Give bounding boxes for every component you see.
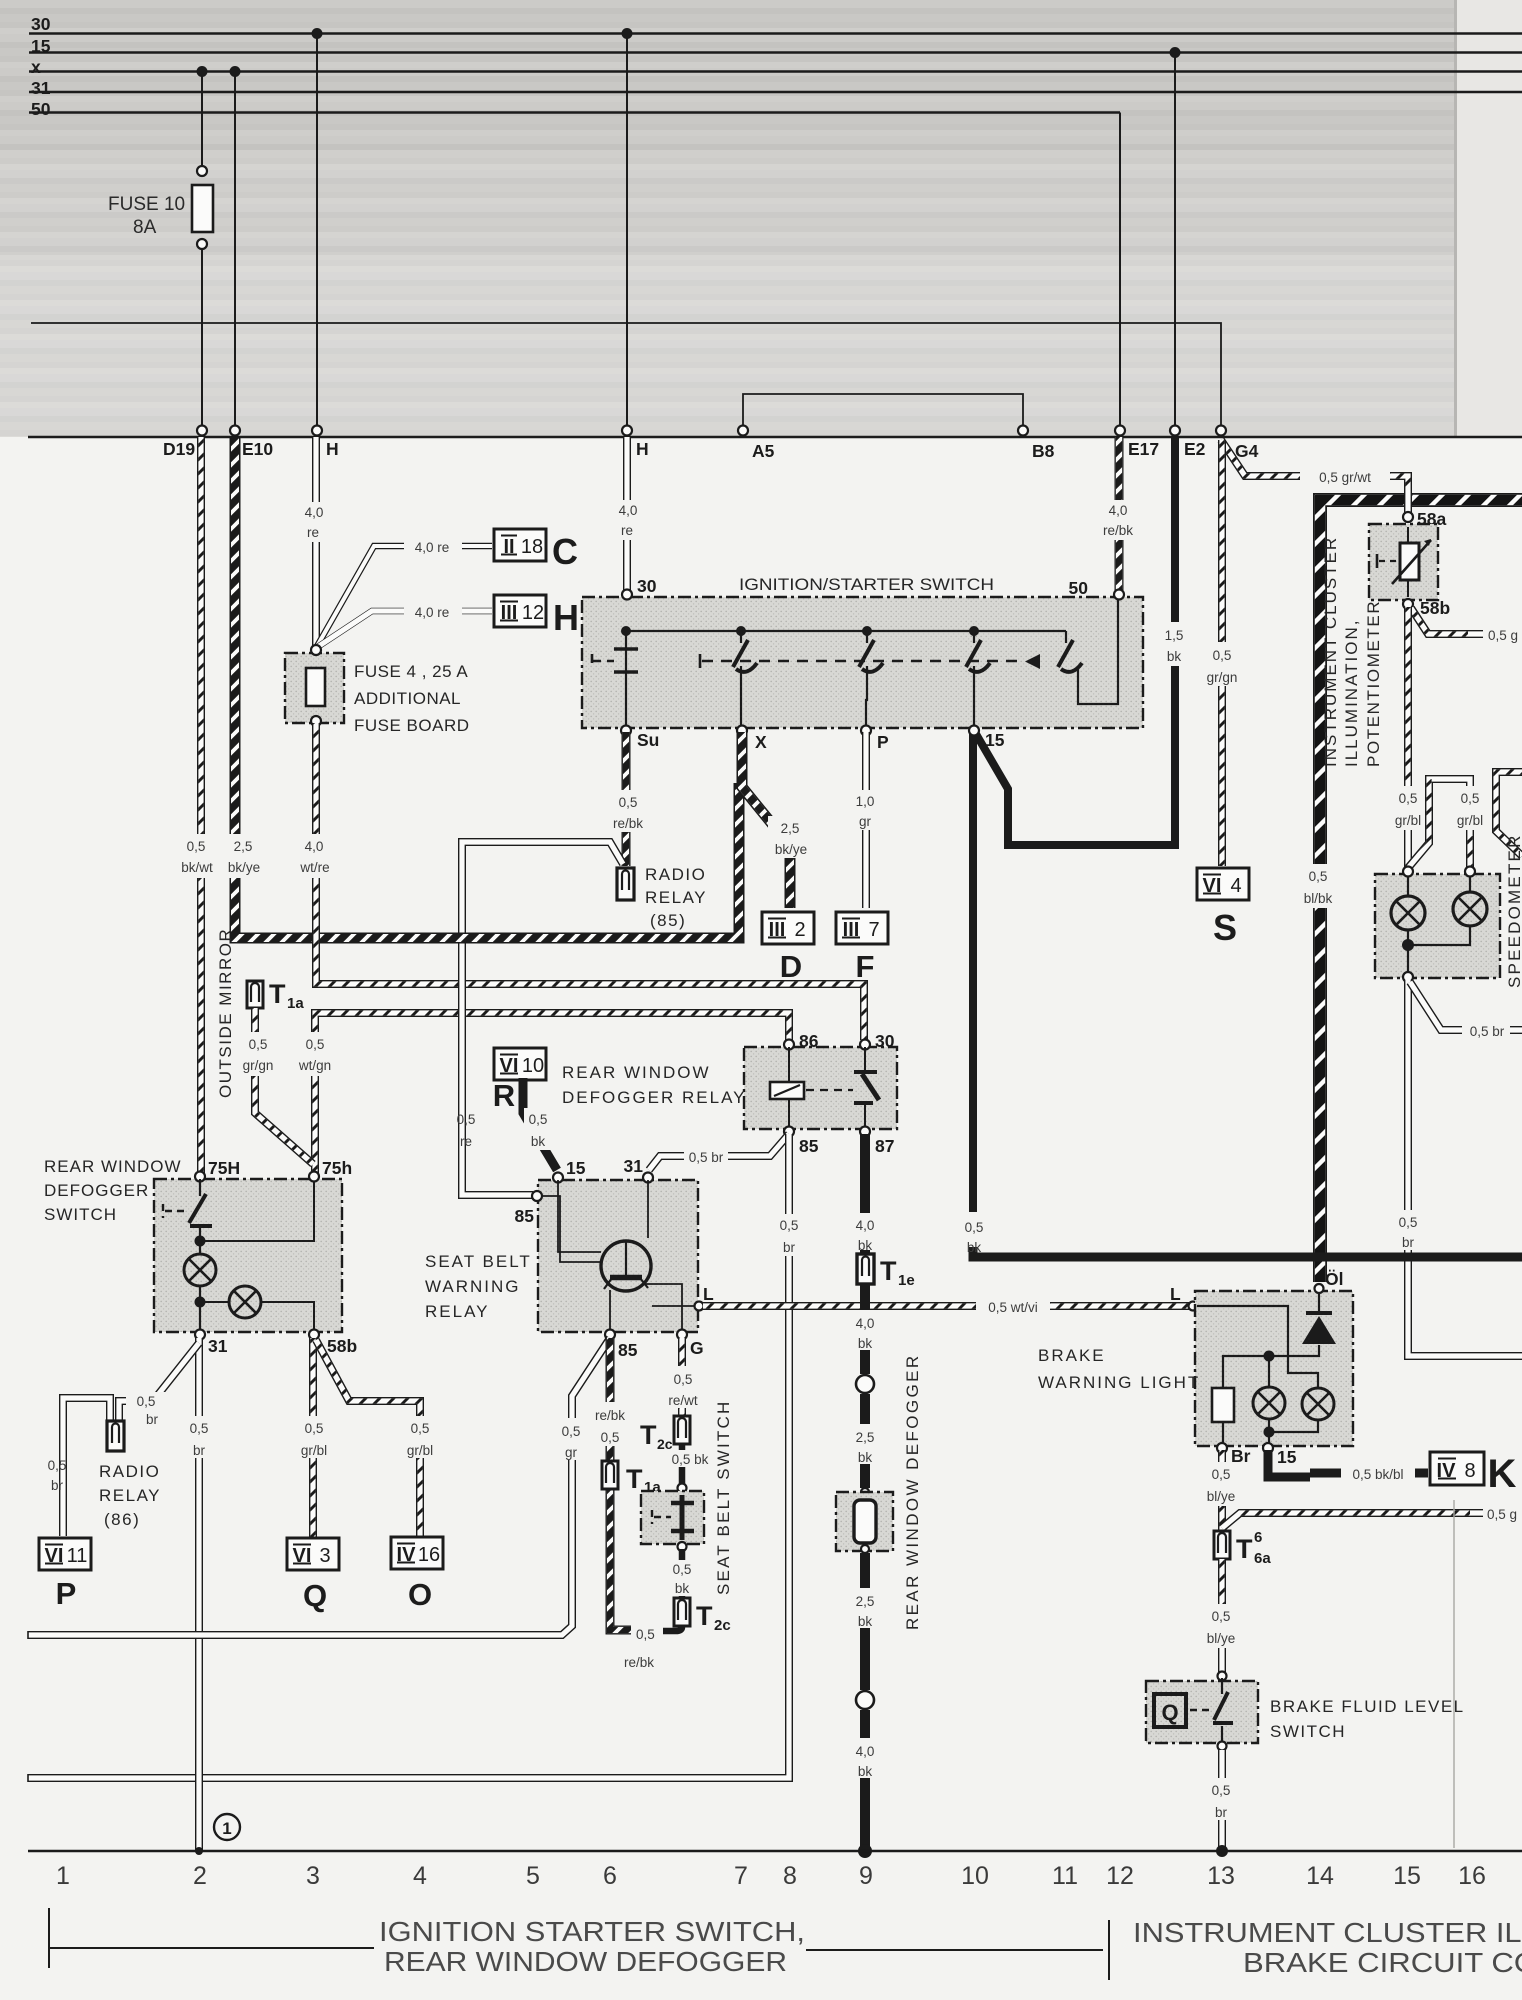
svg-text:0,5 bk/bl: 0,5 bk/bl	[1352, 1467, 1403, 1482]
svg-text:POTENTIOMETER: POTENTIOMETER	[1364, 600, 1383, 767]
svg-text:br: br	[1402, 1235, 1415, 1250]
wire 0,5 wt/vi relay L to brake warning light L	[703, 1302, 1191, 1310]
svg-text:0,5: 0,5	[249, 1037, 268, 1052]
svg-text:br: br	[51, 1478, 64, 1493]
svg-text:RADIO: RADIO	[99, 1462, 160, 1481]
wire E10 column from bus x	[234, 72, 236, 429]
terminal 15	[1263, 1443, 1273, 1453]
svg-text:0,5: 0,5	[457, 1112, 476, 1127]
wire 0,5 br defogger85 to seatbelt31	[649, 1134, 789, 1170]
switch S-brakefluid box	[1146, 1681, 1258, 1743]
svg-text:SWITCH: SWITCH	[44, 1205, 117, 1224]
svg-text:OUTSIDE MIRROR: OUTSIDE MIRROR	[216, 928, 235, 1098]
wire 0,5 gr/bl 58b to VI3	[309, 1338, 317, 1538]
svg-text:0,5: 0,5	[48, 1458, 67, 1473]
svg-text:31: 31	[208, 1336, 228, 1356]
svg-text:FUSE 10: FUSE 10	[108, 194, 185, 215]
svg-text:(86): (86)	[104, 1510, 140, 1529]
svg-text:Q: Q	[1161, 1700, 1178, 1725]
svg-text:4,0: 4,0	[856, 1218, 875, 1233]
svg-text:INSTRUMENT CLUSTER: INSTRUMENT CLUSTER	[1321, 536, 1340, 767]
splice	[856, 1375, 874, 1393]
svg-text:bk/ye: bk/ye	[228, 860, 260, 875]
svg-text:E17: E17	[1128, 439, 1159, 459]
svg-text:10: 10	[522, 1055, 544, 1077]
svg-text:T: T	[269, 979, 286, 1009]
svg-text:0,5: 0,5	[305, 1421, 324, 1436]
svg-text:wt/gn: wt/gn	[298, 1058, 331, 1073]
wire 0,5 bk/bl to IV8	[1268, 1450, 1310, 1477]
svg-text:3: 3	[319, 1545, 330, 1567]
wire 0,5 br 31 down to ground line	[195, 1338, 203, 1852]
connector T1a on re/bk	[602, 1461, 618, 1489]
svg-text:T: T	[880, 1256, 897, 1286]
wire H col3 from bus 30	[316, 34, 318, 429]
wire E10 overlay at crossing with radio wire	[440, 933, 500, 944]
svg-text:RELAY: RELAY	[645, 888, 707, 907]
svg-text:15: 15	[985, 730, 1005, 750]
connector B8	[1018, 426, 1028, 436]
wire 0,5 gr/wt G4 to 58a	[1221, 440, 1408, 514]
svg-text:gr/gn: gr/gn	[243, 1058, 274, 1073]
connector VI 4	[1197, 868, 1249, 900]
svg-text:H: H	[553, 597, 579, 638]
connector T6a	[1214, 1531, 1230, 1559]
svg-text:K: K	[1488, 1452, 1517, 1496]
splice	[856, 1691, 874, 1709]
switch S-seatbelt box	[641, 1491, 704, 1544]
wire 0,5 g branch right	[1222, 1513, 1522, 1528]
bus x	[29, 70, 1522, 72]
svg-text:0,5: 0,5	[562, 1424, 581, 1439]
wire 0,5 bk below switch	[679, 1549, 686, 1598]
wire end caps for long runs	[27, 1631, 29, 1782]
svg-text:bk: bk	[858, 1764, 873, 1779]
svg-text:6: 6	[603, 1862, 617, 1890]
wire 0,5 bk VI10 to seat belt relay 15	[523, 1078, 557, 1170]
svg-text:0,5 bk: 0,5 bk	[672, 1452, 709, 1467]
svg-text:D: D	[780, 949, 802, 984]
svg-text:bk: bk	[858, 1336, 873, 1351]
svg-text:31: 31	[31, 78, 51, 98]
svg-text:18: 18	[521, 536, 543, 558]
svg-text:E10: E10	[242, 439, 273, 459]
connector plug radio relay 86	[107, 1421, 124, 1451]
svg-text:FUSE 4 , 25 A: FUSE 4 , 25 A	[354, 662, 468, 681]
wire branch to III12 H	[316, 611, 492, 648]
svg-text:0,5: 0,5	[1212, 1467, 1231, 1482]
svg-text:4: 4	[1230, 875, 1241, 897]
svg-text:A5: A5	[752, 441, 775, 461]
wire 0,5 bl/ye to fluid switch	[1218, 1559, 1226, 1673]
svg-text:bl/ye: bl/ye	[1207, 1489, 1236, 1504]
wire Su 0,5 re/bk to radio relay	[622, 732, 631, 866]
wire gr/bl hoop lamp1 to lamp2	[1408, 779, 1470, 868]
labels wire sizes left column	[178, 834, 225, 878]
svg-text:0,5: 0,5	[137, 1394, 156, 1409]
svg-text:15: 15	[1393, 1862, 1421, 1890]
svg-text:0,5: 0,5	[673, 1562, 692, 1577]
svg-text:0,5 br: 0,5 br	[1470, 1024, 1505, 1039]
svg-text:gr: gr	[565, 1445, 578, 1460]
svg-text:E2: E2	[1184, 439, 1206, 459]
connector T1e	[860, 1250, 870, 1256]
defog switch contact	[199, 1179, 201, 1196]
connector VI 3	[287, 1538, 339, 1570]
wire 4,0 bk defogger relay 87 down	[860, 1134, 870, 1213]
svg-text:SWITCH: SWITCH	[1270, 1722, 1346, 1741]
svg-text:1e: 1e	[898, 1272, 915, 1289]
svg-text:15: 15	[566, 1158, 586, 1178]
svg-text:15: 15	[31, 36, 51, 56]
defog lamp 1	[199, 1241, 201, 1254]
connector III 7	[836, 912, 888, 944]
svg-text:7: 7	[868, 919, 879, 941]
svg-text:85: 85	[799, 1136, 819, 1156]
svg-text:bk/ye: bk/ye	[775, 842, 807, 857]
svg-text:0,5: 0,5	[1461, 791, 1480, 806]
wire E10 bk/ye down and right to ignition X	[235, 437, 739, 938]
svg-text:T: T	[626, 1464, 643, 1494]
svg-text:wt/re: wt/re	[299, 860, 329, 875]
svg-text:0,5 wt/vi: 0,5 wt/vi	[988, 1300, 1038, 1315]
bus 31	[29, 91, 1522, 93]
svg-text:0,5: 0,5	[780, 1218, 799, 1233]
svg-text:58b: 58b	[327, 1336, 357, 1356]
svg-text:X: X	[755, 732, 767, 752]
ignition contact 50 start	[1066, 600, 1118, 704]
connector T2c lower	[674, 1598, 690, 1626]
svg-text:3: 3	[306, 1862, 320, 1890]
svg-text:br: br	[146, 1412, 159, 1427]
svg-text:br: br	[783, 1240, 796, 1255]
ignition/starter switch box U-ign	[582, 597, 1143, 728]
svg-text:6a: 6a	[1254, 1550, 1271, 1567]
svg-text:30: 30	[637, 576, 657, 596]
speedo lamp 1	[1407, 876, 1409, 896]
connector A5	[738, 426, 748, 436]
svg-text:0,5: 0,5	[411, 1421, 430, 1436]
svg-text:0,5 g: 0,5 g	[1487, 1507, 1517, 1522]
connector H col3	[312, 426, 322, 436]
svg-text:bk: bk	[967, 1240, 982, 1255]
svg-text:re: re	[460, 1134, 472, 1149]
ignition contact P	[866, 631, 867, 728]
svg-text:2,5: 2,5	[781, 821, 800, 836]
svg-text:0,5: 0,5	[601, 1430, 620, 1445]
svg-text:L: L	[703, 1284, 714, 1304]
wire 0,5 bl/bk candy stripe	[1320, 500, 1522, 1282]
svg-text:INSTRUMENT CLUSTER ILLU: INSTRUMENT CLUSTER ILLU	[1133, 1917, 1522, 1948]
svg-text:T: T	[696, 1601, 713, 1631]
svg-text:11: 11	[67, 1545, 88, 1567]
wire 0,5 gr/bl 58b down to speedometer	[1404, 607, 1412, 868]
svg-text:0,5: 0,5	[1213, 648, 1232, 663]
svg-text:14: 14	[1306, 1862, 1334, 1890]
caption bracket	[49, 1908, 1109, 1980]
svg-text:1: 1	[56, 1862, 70, 1890]
relay contact	[864, 1047, 866, 1129]
svg-text:2c: 2c	[714, 1617, 731, 1634]
svg-text:DEFOGGER: DEFOGGER	[44, 1181, 149, 1200]
wire black hook to re/bk run	[663, 1626, 682, 1631]
lamp 2	[1302, 1388, 1334, 1420]
connector III 12	[494, 595, 546, 627]
svg-text:T: T	[640, 1420, 657, 1450]
wire 0,5 br speedo down right	[1408, 980, 1522, 1356]
svg-text:11: 11	[1052, 1862, 1078, 1890]
svg-text:5: 5	[526, 1862, 540, 1890]
svg-text:6: 6	[1254, 1529, 1262, 1546]
svg-text:G: G	[690, 1338, 704, 1358]
connector H col6	[622, 426, 632, 436]
svg-text:x: x	[31, 57, 41, 77]
switch S-defog box	[154, 1179, 342, 1332]
svg-text:ILLUMINATION,: ILLUMINATION,	[1342, 619, 1361, 767]
svg-text:8A: 8A	[133, 217, 157, 238]
svg-text:50: 50	[1069, 578, 1089, 598]
svg-text:FUSE BOARD: FUSE BOARD	[354, 716, 470, 735]
svg-text:1: 1	[222, 1819, 231, 1838]
svg-text:O: O	[408, 1577, 432, 1612]
svg-text:4,0: 4,0	[1109, 503, 1128, 518]
wire 0,5 gr relay85 down to bottom-left run	[28, 1338, 610, 1635]
svg-text:0,5: 0,5	[636, 1627, 655, 1642]
svg-text:87: 87	[875, 1136, 894, 1156]
wire E2 column from bus 15	[1174, 53, 1176, 429]
wire H col6 4,0 re down to terminal 30	[623, 437, 631, 592]
svg-text:13: 13	[1207, 1862, 1235, 1890]
svg-text:75H: 75H	[208, 1158, 240, 1178]
svg-text:(85): (85)	[650, 911, 686, 930]
bus 50	[29, 111, 1120, 113]
svg-text:bk: bk	[858, 1614, 873, 1629]
connector VI 10	[494, 1048, 546, 1080]
wire X 2,5 bk/ye to III2	[742, 732, 790, 908]
svg-text:1,5: 1,5	[1165, 628, 1184, 643]
svg-text:12: 12	[522, 602, 544, 624]
svg-text:B8: B8	[1032, 441, 1055, 461]
wire 0,5 g from 58b right	[1411, 608, 1522, 634]
terminal Oel	[1315, 1284, 1324, 1293]
wire 4,0 bk below T1e	[860, 1284, 870, 1310]
connector E17	[1115, 426, 1125, 436]
svg-text:IGNITION STARTER SWITCH,: IGNITION STARTER SWITCH,	[379, 1916, 805, 1947]
speedo lamp 2	[1469, 876, 1471, 892]
wire 0,5 bl/ye Br down	[1218, 1450, 1226, 1530]
svg-text:BRAKE CIRCUIT CONN: BRAKE CIRCUIT CONN	[1243, 1947, 1522, 1978]
svg-text:0,5: 0,5	[1212, 1609, 1231, 1624]
svg-text:16: 16	[1458, 1862, 1486, 1890]
svg-text:86: 86	[799, 1031, 819, 1051]
fuse F4 box	[285, 653, 344, 723]
svg-text:RADIO: RADIO	[645, 865, 706, 884]
wire 0,5 gr/gn T1a to 75h	[255, 1008, 313, 1164]
svg-text:0,5: 0,5	[190, 1421, 209, 1436]
svg-text:2: 2	[193, 1862, 207, 1890]
svg-text:G4: G4	[1235, 441, 1259, 461]
relay coil	[788, 1047, 790, 1129]
svg-text:85: 85	[618, 1340, 638, 1360]
svg-text:4,0 re: 4,0 re	[415, 605, 450, 620]
svg-text:REAR WINDOW: REAR WINDOW	[562, 1063, 711, 1082]
heater R-defog element	[861, 1488, 869, 1496]
svg-text:D19: D19	[163, 439, 195, 459]
svg-text:2c: 2c	[657, 1436, 673, 1452]
wire 0,5 gr/bl 58b to IV16	[316, 1340, 420, 1537]
svg-text:2: 2	[794, 919, 805, 941]
svg-text:BRAKE FLUID LEVEL: BRAKE FLUID LEVEL	[1270, 1697, 1465, 1716]
svg-text:58b: 58b	[1420, 598, 1450, 618]
svg-text:bk: bk	[1167, 649, 1182, 664]
svg-text:R: R	[493, 1078, 515, 1113]
svg-text:Q: Q	[303, 1578, 327, 1613]
svg-text:L: L	[1170, 1284, 1181, 1304]
svg-text:4,0: 4,0	[856, 1744, 875, 1759]
svg-text:T: T	[1236, 1534, 1253, 1564]
wire 0,5 re/wt relayG down	[678, 1338, 686, 1416]
svg-text:4: 4	[413, 1862, 427, 1890]
svg-text:br: br	[193, 1443, 206, 1458]
svg-text:re/wt: re/wt	[668, 1393, 698, 1408]
svg-text:REAR WINDOW: REAR WINDOW	[44, 1157, 182, 1176]
svg-text:gr/bl: gr/bl	[301, 1443, 327, 1458]
node circled 1	[214, 1814, 240, 1840]
wire D19 column from bus x	[201, 72, 203, 167]
svg-text:16: 16	[418, 1544, 440, 1566]
svg-text:gr/bl: gr/bl	[407, 1443, 433, 1458]
svg-text:50: 50	[31, 99, 51, 119]
ignition bottom terminals	[621, 726, 631, 736]
defog lamp 2	[200, 1301, 229, 1303]
wire 4,0 wt/re fuse to defogger relay 30	[316, 723, 864, 1040]
svg-text:0,5: 0,5	[674, 1372, 693, 1387]
scanned gray band top	[0, 0, 1522, 437]
svg-text:0,5: 0,5	[1399, 791, 1418, 806]
boundary line	[28, 436, 1522, 438]
svg-text:gr/bl: gr/bl	[1457, 813, 1483, 828]
ignition contact X	[740, 631, 742, 728]
svg-text:SEAT BELT: SEAT BELT	[425, 1252, 532, 1271]
svg-text:2,5: 2,5	[856, 1430, 875, 1445]
svg-text:H: H	[636, 439, 649, 459]
wire H col6 from bus 30	[626, 34, 628, 429]
svg-text:12: 12	[1106, 1862, 1134, 1890]
svg-text:7: 7	[734, 1862, 748, 1890]
svg-text:REAR WINDOW DEFOGGER: REAR WINDOW DEFOGGER	[384, 1946, 787, 1977]
wire 0,5 br defogger85 down to bottom left	[28, 1134, 789, 1778]
svg-text:re: re	[307, 525, 319, 540]
svg-text:9: 9	[859, 1862, 873, 1890]
svg-text:0,5: 0,5	[619, 795, 638, 810]
svg-text:4,0: 4,0	[305, 505, 324, 520]
svg-text:P: P	[877, 732, 889, 752]
connector E10	[230, 426, 240, 436]
svg-text:30: 30	[31, 14, 51, 34]
internal wiring	[1197, 1291, 1319, 1444]
svg-text:10: 10	[961, 1862, 989, 1890]
svg-text:gr: gr	[859, 814, 872, 829]
svg-text:SPEEDOMETER: SPEEDOMETER	[1505, 833, 1522, 988]
connector plug radio relay 85	[617, 868, 634, 900]
wire 0,5 br fluid switch to ground	[1218, 1750, 1226, 1850]
svg-text:F: F	[856, 949, 875, 984]
terminal Br	[1217, 1443, 1227, 1453]
svg-text:1,0: 1,0	[856, 794, 875, 809]
wire G4 feed line	[31, 323, 1221, 428]
transistor symbol	[601, 1241, 651, 1291]
svg-text:re: re	[621, 523, 633, 538]
relay internal stubs	[542, 1180, 696, 1330]
lamp unit brake warning light box	[1195, 1291, 1353, 1446]
wire H col3 4,0 re down to fuse 4	[312, 437, 320, 646]
svg-text:0,5: 0,5	[529, 1112, 548, 1127]
wire passing right edge	[1496, 772, 1522, 856]
svg-text:BRAKE: BRAKE	[1038, 1346, 1106, 1365]
svg-text:P: P	[56, 1576, 77, 1611]
svg-text:4,0: 4,0	[305, 839, 324, 854]
svg-text:C: C	[552, 531, 578, 572]
svg-text:0,5: 0,5	[1212, 1783, 1231, 1798]
svg-text:4,0: 4,0	[619, 503, 638, 518]
wire 0,5 wt/gn from 75h to defogger relay 86	[315, 1013, 789, 1174]
ignition actuator dashes	[699, 654, 702, 668]
svg-text:2,5: 2,5	[234, 839, 253, 854]
wire 0,5 re/bk relay85 down	[610, 1338, 631, 1630]
svg-text:0,5: 0,5	[1399, 1215, 1418, 1230]
wire 0,5 re from seat belt relay to radio relay	[462, 842, 623, 1195]
wire 0,5 bk to seat belt switch	[679, 1444, 686, 1486]
lamp 1	[1253, 1387, 1285, 1419]
connector IV 8	[1430, 1452, 1484, 1485]
connector III 2	[762, 912, 814, 944]
svg-text:bk/wt: bk/wt	[181, 860, 213, 875]
connector IV 16	[391, 1537, 443, 1569]
svg-text:SEAT BELT SWITCH: SEAT BELT SWITCH	[714, 1400, 733, 1595]
svg-text:30: 30	[875, 1031, 895, 1051]
svg-text:1a: 1a	[287, 995, 304, 1012]
svg-text:IGNITION/STARTER SWITCH: IGNITION/STARTER SWITCH	[739, 576, 994, 594]
connector D19	[197, 426, 207, 436]
svg-text:Su: Su	[637, 730, 659, 750]
svg-text:WARNING LIGHT: WARNING LIGHT	[1038, 1373, 1200, 1392]
ignition contact Su	[625, 631, 627, 728]
svg-text:re/bk: re/bk	[595, 1408, 625, 1423]
wire ignition 15 thick down then right	[969, 732, 977, 1212]
connector T2c upper	[674, 1416, 690, 1444]
svg-text:85: 85	[515, 1206, 535, 1226]
svg-text:bl/ye: bl/ye	[1207, 1631, 1236, 1646]
section divider faint	[1453, 1500, 1455, 1848]
connector E2	[1170, 426, 1180, 436]
svg-text:ADDITIONAL: ADDITIONAL	[354, 689, 461, 708]
svg-text:0,5: 0,5	[187, 839, 206, 854]
svg-text:0,5: 0,5	[306, 1037, 325, 1052]
diode	[1306, 1311, 1332, 1315]
svg-text:bl/bk: bl/bk	[1304, 891, 1333, 906]
svg-text:0,5 gr/wt: 0,5 gr/wt	[1319, 470, 1371, 485]
wire 0,5 br 31 to radio relay 86 and P	[119, 1343, 199, 1421]
wire E2 1,5 bk thick down and to ignition 15	[976, 437, 1175, 845]
wire branch to II18 C	[316, 546, 492, 648]
wire A5-B8 loop	[743, 394, 1023, 428]
potentiometer U-pot box	[1403, 512, 1413, 522]
svg-text:4,0: 4,0	[856, 1316, 875, 1331]
wire D19 bk/wt down to 75H	[197, 437, 205, 1174]
connector G4	[1216, 426, 1226, 436]
svg-text:REAR WINDOW DEFOGGER: REAR WINDOW DEFOGGER	[903, 1353, 922, 1630]
svg-text:Öl: Öl	[1325, 1269, 1343, 1289]
